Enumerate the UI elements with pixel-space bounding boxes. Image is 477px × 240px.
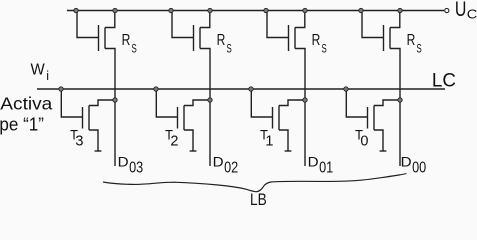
svg-text:03: 03 (129, 160, 143, 177)
svg-text:C: C (467, 7, 477, 22)
svg-text:00: 00 (412, 160, 426, 177)
svg-text:R: R (312, 32, 321, 49)
svg-text:LB: LB (250, 190, 267, 205)
svg-text:U: U (455, 0, 467, 21)
svg-text:Activa: Activa (0, 94, 52, 114)
svg-text:D: D (118, 154, 129, 170)
svg-text:S: S (226, 43, 232, 56)
svg-text:1: 1 (265, 134, 273, 150)
svg-text:i: i (46, 69, 49, 83)
svg-text:S: S (321, 43, 327, 56)
svg-text:01: 01 (319, 160, 333, 177)
svg-text:2: 2 (170, 134, 178, 150)
svg-text:02: 02 (224, 160, 238, 177)
svg-text:0: 0 (360, 134, 368, 150)
svg-text:R: R (217, 32, 226, 49)
svg-text:S: S (131, 43, 137, 56)
svg-text:D: D (308, 154, 319, 170)
svg-text:R: R (407, 32, 416, 49)
svg-text:D: D (213, 154, 224, 170)
svg-text:pe “1”: pe “1” (0, 115, 44, 135)
svg-text:S: S (416, 43, 422, 56)
svg-text:3: 3 (75, 134, 83, 150)
svg-text:R: R (122, 32, 131, 49)
svg-text:LC: LC (432, 70, 456, 92)
svg-text:D: D (401, 154, 412, 170)
svg-text:W: W (31, 62, 46, 79)
